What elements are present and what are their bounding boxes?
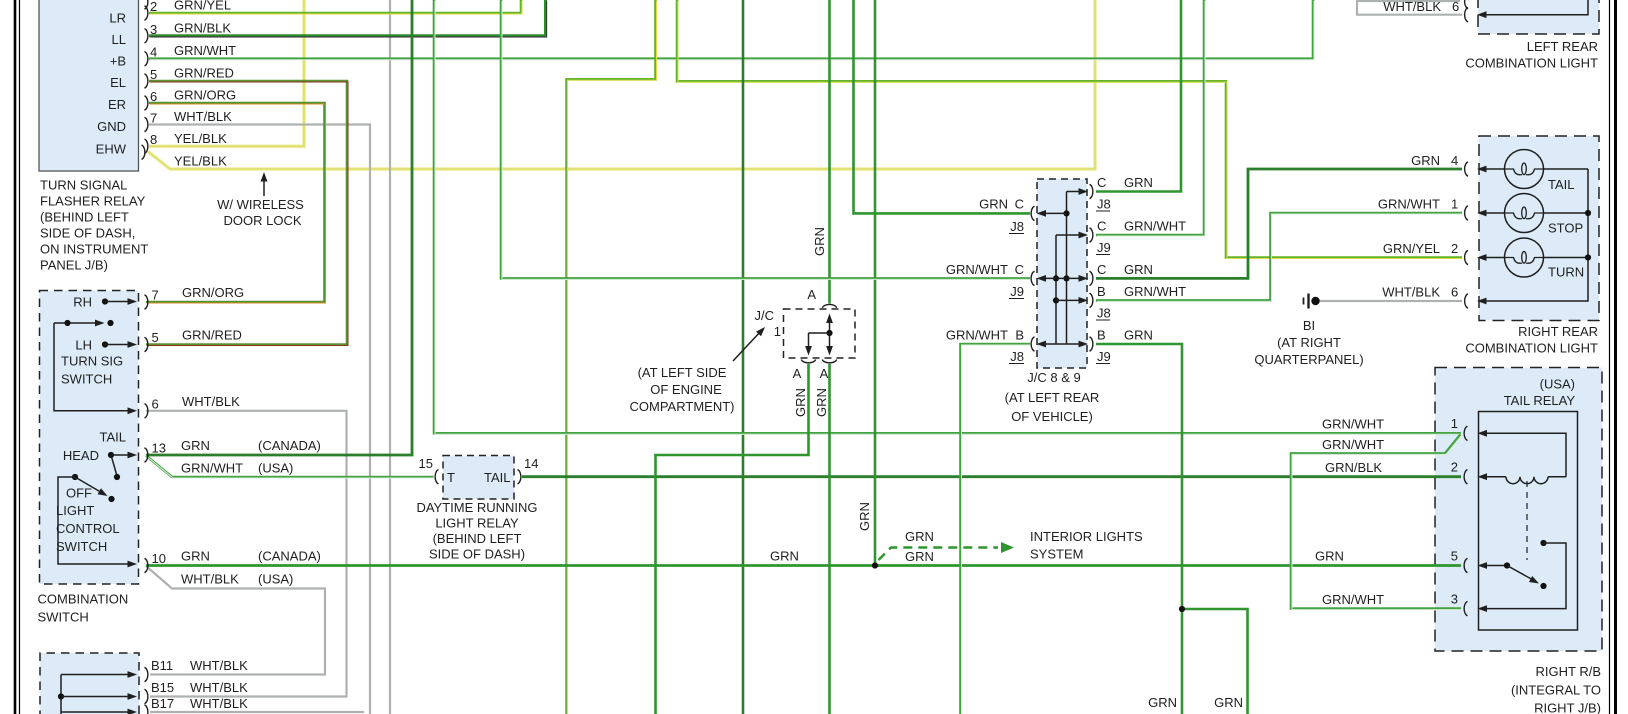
light control switch common to pin 10 (58, 477, 137, 567)
svg-text:GRN/WHT: GRN/WHT (1378, 197, 1440, 212)
flasher relay pin 8 arc (145, 132, 158, 154)
wire GRN/YEL pin 2 (flasher relay) (149, 0, 522, 14)
svg-text:GRN: GRN (181, 549, 210, 564)
turn signal switch wire labels (182, 285, 244, 409)
svg-text:2: 2 (1451, 460, 1458, 475)
svg-text:GRN/RED: GRN/RED (174, 66, 234, 81)
right rear light wire labels (1378, 153, 1440, 300)
flasher relay pin name labels (96, 11, 127, 157)
wire GRN/WHT from J/C 8-9 left pin B J8 down (961, 344, 1032, 714)
svg-text:5: 5 (152, 330, 159, 345)
J/C 8 and 9 dashed box (1037, 179, 1087, 368)
svg-text:GRN/WHT: GRN/WHT (1124, 219, 1186, 234)
daytime running light relay contacts text (447, 470, 511, 485)
flasher relay pin 1 stub arc (145, 0, 148, 9)
svg-text:7: 7 (152, 288, 159, 303)
svg-text:GRN: GRN (1148, 695, 1177, 710)
turn signal switch RH contact (102, 298, 137, 305)
svg-text:GRN/BLK: GRN/BLK (174, 20, 231, 35)
page border left (15, 0, 20, 714)
svg-text:HEAD: HEAD (63, 448, 99, 463)
daytime running light relay pin 14 arc (518, 456, 539, 484)
flasher relay EHW pin arc (142, 145, 145, 159)
pin 13 wire labels (181, 438, 321, 476)
wire GRN pin 10 (CANADA) to tail relay pin 5 (146, 564, 1461, 567)
wire GRN/WHT pin 4 (flasher relay, long top run) (149, 0, 1314, 60)
svg-text:ON INSTRUMENT: ON INSTRUMENT (40, 242, 148, 257)
svg-text:DAYTIME RUNNING: DAYTIME RUNNING (416, 500, 537, 515)
page border right (1610, 0, 1616, 714)
svg-text:GRN/WHT: GRN/WHT (1322, 437, 1384, 452)
right rear light pin numbers (1451, 153, 1458, 300)
bottom GRN labels (1148, 695, 1243, 710)
svg-text:TAIL: TAIL (100, 430, 127, 445)
svg-text:EHW: EHW (96, 142, 127, 157)
svg-text:QUARTERPANEL): QUARTERPANEL) (1254, 352, 1363, 367)
svg-text:GRN: GRN (1124, 175, 1153, 190)
svg-text:C: C (1097, 175, 1106, 190)
wire WHT/BLK vertical trunk x390 (389, 0, 391, 714)
J/C 8-9 caption (1005, 370, 1100, 424)
svg-text:GRN: GRN (770, 549, 799, 564)
daytime running light relay caption (416, 500, 537, 562)
svg-text:(BEHIND LEFT: (BEHIND LEFT (433, 531, 522, 546)
wire WHT/BLK left rear combination light pin 6 (1357, 0, 1462, 15)
wire GRN J/C 1 lower pin A to bottom via x655 (656, 364, 809, 714)
pin 10 wire labels (181, 549, 321, 587)
wire WHT/BLK (USA) light control pin 10 to B11 (146, 566, 325, 675)
light control pin 10 arc (145, 551, 166, 573)
svg-text:C: C (1097, 262, 1106, 277)
svg-text:FLASHER RELAY: FLASHER RELAY (40, 194, 146, 209)
svg-text:SWITCH: SWITCH (56, 539, 107, 554)
lower body connector dashed box (40, 653, 139, 714)
w/ wireless door lock arrow (261, 172, 268, 196)
svg-text:B: B (1097, 328, 1106, 343)
svg-text:OFF: OFF (66, 486, 92, 501)
rotated GRN label x875 (857, 502, 872, 531)
light control switch blade (72, 474, 115, 502)
tail relay pin arcs (1464, 426, 1467, 616)
svg-text:LIGHT: LIGHT (56, 503, 94, 518)
wire YEL/BLK pin 8 (flasher relay to top) (149, 0, 304, 146)
svg-text:SWITCH: SWITCH (61, 372, 112, 387)
BI caption (1254, 318, 1363, 367)
svg-text:GRN: GRN (905, 549, 934, 564)
turn signal switch LH contact (102, 341, 137, 348)
svg-text:INTERIOR LIGHTS: INTERIOR LIGHTS (1030, 529, 1143, 544)
flasher relay wire color labels (174, 0, 236, 169)
wire GRN J/C 1 lower pin A straight down (828, 364, 831, 714)
wire GRN vertical trunk x743 (742, 0, 745, 714)
svg-text:GRN/WHT: GRN/WHT (946, 262, 1008, 277)
flasher relay pin 4 arc (145, 45, 158, 66)
J/C 8-9 row connectors (1037, 188, 1089, 347)
tail bulb (1477, 150, 1588, 189)
svg-text:YEL/BLK: YEL/BLK (174, 154, 227, 169)
svg-text:SWITCH: SWITCH (38, 610, 89, 625)
daytime running light relay dashed box (443, 456, 514, 500)
svg-text:J9: J9 (1097, 349, 1111, 364)
svg-text:5: 5 (1451, 549, 1458, 564)
svg-text:LH: LH (75, 338, 92, 353)
turn signal switch pin 7 arc (145, 288, 159, 310)
svg-text:LEFT REAR: LEFT REAR (1527, 39, 1598, 54)
svg-text:C: C (1015, 197, 1024, 212)
light control pin 13 arc (145, 441, 166, 463)
svg-text:COMBINATION LIGHT: COMBINATION LIGHT (1465, 341, 1598, 356)
svg-text:OF ENGINE: OF ENGINE (650, 382, 722, 397)
wire GRN/RED pin 5 EL to turn signal switch LH (146, 81, 348, 346)
svg-text:ER: ER (108, 97, 126, 112)
svg-text:(BEHIND LEFT: (BEHIND LEFT (40, 210, 129, 225)
turn signal switch common to pin 6 (54, 323, 137, 414)
light control switch lower contact dot (114, 474, 120, 480)
svg-text:TURN SIGNAL: TURN SIGNAL (40, 178, 127, 193)
svg-text:DOOR LOCK: DOOR LOCK (223, 213, 301, 228)
svg-text:GRN: GRN (979, 197, 1008, 212)
flasher relay pin 7 arc (145, 111, 158, 132)
J/C 1 rotated GRN labels (793, 388, 829, 417)
svg-text:GRN: GRN (1315, 549, 1344, 564)
svg-text:J/C: J/C (755, 308, 775, 323)
body connector labels (151, 658, 248, 711)
svg-text:SIDE OF DASH,: SIDE OF DASH, (40, 226, 135, 241)
wire GRN to J/C 8-9 left pin C J8 (854, 0, 1031, 213)
flasher relay pin 2 arc (145, 0, 158, 20)
svg-text:W/ WIRELESS: W/ WIRELESS (217, 197, 304, 212)
svg-text:(AT RIGHT: (AT RIGHT (1277, 335, 1341, 350)
GRN label on main feed (770, 549, 799, 564)
svg-text:J/C 8 & 9: J/C 8 & 9 (1027, 370, 1080, 385)
svg-text:STOP: STOP (1548, 221, 1583, 236)
svg-text:(AT LEFT REAR: (AT LEFT REAR (1005, 390, 1100, 405)
wire GRN/YEL trunk with jog (x655 to x566 down) (567, 0, 657, 714)
svg-text:+B: +B (110, 54, 126, 69)
svg-text:GRN/WHT: GRN/WHT (1124, 284, 1186, 299)
svg-text:COMBINATION LIGHT: COMBINATION LIGHT (1465, 56, 1598, 71)
svg-text:15: 15 (419, 456, 433, 471)
svg-text:CONTROL: CONTROL (56, 521, 120, 536)
tail relay caption top (1504, 377, 1576, 409)
combination switch dashed box (40, 291, 139, 585)
svg-text:GRN: GRN (1411, 153, 1440, 168)
wire GRN/WHT long run to tail relay pin 1 (434, 0, 1462, 434)
light control switch HEAD contact (108, 452, 137, 476)
svg-text:GRN/WHT: GRN/WHT (174, 43, 236, 58)
wire GRN/WHT tail relay pin 3 to pin 1 link (1291, 435, 1462, 610)
svg-text:WHT/BLK: WHT/BLK (181, 572, 239, 587)
rotated GRN label x830 (812, 227, 827, 256)
svg-text:6: 6 (1452, 0, 1459, 14)
svg-text:TURN SIG: TURN SIG (61, 354, 123, 369)
svg-text:GRN/ORG: GRN/ORG (182, 285, 244, 300)
wire GRN vertical to interior lights junction (874, 0, 877, 566)
turn signal switch labels (61, 295, 123, 387)
interior lights system caption (1030, 529, 1143, 562)
svg-text:7: 7 (150, 111, 157, 126)
svg-text:BI: BI (1303, 318, 1315, 333)
wire YEL/BLK EHW (flasher relay, long horizontal) (148, 0, 1095, 169)
svg-text:COMPARTMENT): COMPARTMENT) (630, 399, 735, 414)
svg-text:GRN: GRN (857, 502, 872, 531)
wire WHT/BLK stub above left rear light (1357, 0, 1460, 2)
turn signal switch pin 6 arc (145, 396, 159, 418)
svg-text:10: 10 (152, 551, 166, 566)
svg-text:A: A (793, 366, 802, 381)
J/C 1 internal bus (805, 314, 833, 356)
svg-text:B: B (1015, 328, 1024, 343)
svg-text:RH: RH (73, 295, 92, 310)
J/C 1 dashed box (784, 309, 856, 358)
svg-text:GRN/RED: GRN/RED (182, 328, 242, 343)
body connector internal bus (58, 671, 137, 714)
svg-text:PANEL J/B): PANEL J/B) (40, 258, 108, 273)
svg-text:GRN/BLK: GRN/BLK (1325, 460, 1382, 475)
J/C 1 bottom pin A arcs (801, 360, 836, 363)
tail relay pin numbers (1451, 416, 1458, 607)
svg-text:TAIL: TAIL (1548, 177, 1575, 192)
J/C 1 name and arrow (733, 308, 781, 361)
turn bulb (1477, 238, 1588, 277)
body connector pin B17 arc (145, 705, 148, 714)
svg-text:GRN/WHT: GRN/WHT (181, 461, 243, 476)
body connector pin B11 arc (145, 667, 148, 681)
wire GRN/BLK pin 3 (flasher relay) (149, 0, 547, 37)
svg-text:GRN: GRN (181, 438, 210, 453)
svg-text:14: 14 (524, 456, 538, 471)
svg-text:(USA): (USA) (258, 572, 293, 587)
svg-text:GRN/WHT: GRN/WHT (1322, 592, 1384, 607)
svg-text:GRN: GRN (812, 227, 827, 256)
svg-text:1: 1 (774, 324, 781, 339)
wire GRN/WHT to J/C 8-9 left pin C J9 (501, 0, 1031, 279)
svg-text:1: 1 (1451, 197, 1458, 212)
svg-text:OF VEHICLE): OF VEHICLE) (1011, 409, 1093, 424)
right R/B caption (1511, 664, 1601, 714)
dashed arrow to interior lights system (879, 542, 1015, 560)
wire GRN turn sig pin 13 (CANADA) up (146, 0, 412, 455)
wire GRN from J/C 8-9 right pin B J9 down (1096, 344, 1182, 714)
svg-text:GRN: GRN (814, 388, 829, 417)
tail relay switch (1478, 540, 1567, 612)
svg-text:3: 3 (150, 22, 157, 37)
junction dot GRN branch (1179, 606, 1185, 612)
J/C 8-9 internal bus 1 (1063, 192, 1069, 345)
svg-text:EL: EL (110, 75, 126, 90)
J/C 8-9 left pin labels (946, 197, 1024, 365)
tail relay coil circuit (1478, 430, 1567, 484)
svg-text:B11: B11 (151, 658, 173, 673)
svg-text:GRN: GRN (905, 529, 934, 544)
svg-text:WHT/BLK: WHT/BLK (1383, 0, 1441, 14)
svg-text:SYSTEM: SYSTEM (1030, 547, 1083, 562)
interior lights GRN labels (905, 529, 934, 564)
svg-text:TAIL: TAIL (484, 470, 511, 485)
svg-text:6: 6 (150, 89, 157, 104)
svg-text:A: A (820, 366, 829, 381)
left rear light internal wire (1477, 0, 1588, 18)
turn signal flasher relay J/B connector block (39, 0, 139, 171)
svg-text:1: 1 (1451, 416, 1458, 431)
svg-text:WHT/BLK: WHT/BLK (190, 680, 248, 695)
svg-text:4: 4 (150, 45, 157, 60)
svg-text:B15: B15 (151, 680, 174, 695)
turn signal switch pin 5 arc (145, 330, 159, 352)
tail relay actuator dashed line (1526, 481, 1528, 560)
svg-text:GRN: GRN (1124, 328, 1153, 343)
svg-text:LR: LR (109, 11, 126, 26)
body connector pin B15 arc (145, 689, 148, 703)
svg-text:WHT/BLK: WHT/BLK (190, 658, 248, 673)
flasher relay pin 6 arc (145, 89, 158, 110)
tail relay inner box (1479, 412, 1578, 631)
svg-text:SIDE OF DASH): SIDE OF DASH) (429, 547, 525, 562)
right rear light common bus (1477, 169, 1591, 304)
wire WHT/BLK right rear combination light pin 6 from BI (1319, 300, 1462, 302)
wire GRN from J/C 8-9 right pin C J8 up (1096, 0, 1181, 192)
svg-text:(CANADA): (CANADA) (258, 549, 321, 564)
svg-text:J8: J8 (1097, 306, 1111, 321)
svg-text:LL: LL (112, 32, 126, 47)
svg-text:B: B (1097, 284, 1106, 299)
stop bulb (1477, 194, 1588, 233)
wire WHT/BLK turn-sig pin 6 to B15 (146, 411, 347, 697)
right R/B tail relay dashed box (1435, 368, 1602, 652)
wire GRN to J/C 1 top pin A (828, 0, 831, 304)
combination switch caption (38, 592, 129, 625)
svg-text:GRN/WHT: GRN/WHT (1322, 417, 1384, 432)
svg-text:J9: J9 (1097, 240, 1111, 255)
svg-text:WHT/BLK: WHT/BLK (1382, 285, 1440, 300)
right rear combination light dashed box (1479, 136, 1599, 321)
left rear light pin 6 arc (1465, 0, 1468, 22)
flasher relay pin 5 arc (145, 67, 158, 88)
J/C 1 pin A labels (793, 287, 829, 381)
J/C 1 top pin A arc (822, 304, 836, 307)
left rear combination light caption (1465, 39, 1598, 71)
svg-text:(USA): (USA) (258, 461, 293, 476)
w/ wireless door lock caption (217, 197, 304, 228)
svg-text:B17: B17 (151, 696, 174, 711)
J/C 1 location caption (630, 365, 735, 414)
wire GRN daytime relay pin 14 to tail relay pin 2 (GRN/BLK) (522, 475, 1461, 478)
svg-text:(INTEGRAL TO: (INTEGRAL TO (1511, 683, 1601, 698)
turn signal flasher relay caption (40, 178, 148, 273)
wire GRN from J/C 8-9 right pin C J9 to tail lamp pin 4 (1096, 169, 1462, 278)
svg-text:COMBINATION: COMBINATION (38, 592, 129, 607)
J/C 8-9 internal bus 2 (1053, 235, 1059, 344)
wire GRN/WHT from J/C 8-9 right pin B J8 to stop lamp pin 1 (1096, 213, 1463, 301)
svg-text:RIGHT REAR: RIGHT REAR (1518, 324, 1598, 339)
svg-text:2: 2 (1451, 241, 1458, 256)
svg-text:TURN: TURN (1548, 265, 1584, 280)
svg-text:3: 3 (1451, 592, 1458, 607)
svg-text:13: 13 (152, 441, 166, 456)
svg-text:C: C (1097, 219, 1106, 234)
svg-text:YEL/BLK: YEL/BLK (174, 131, 227, 146)
svg-text:RIGHT J/B): RIGHT J/B) (1534, 701, 1601, 714)
left rear combination light dashed box (1478, 0, 1599, 34)
svg-text:(AT LEFT SIDE: (AT LEFT SIDE (638, 365, 727, 380)
left rear light labels (1383, 0, 1459, 14)
turn signal switch wiper (54, 320, 114, 327)
J/C 8-9 right pin labels (1096, 175, 1186, 364)
svg-text:J8: J8 (1010, 219, 1024, 234)
svg-text:WHT/BLK: WHT/BLK (190, 696, 248, 711)
svg-text:LIGHT RELAY: LIGHT RELAY (435, 516, 519, 531)
right rear combination light caption (1465, 324, 1598, 356)
wire GRN/WHT pin 13 (USA) through daytime running light relay (146, 456, 435, 479)
svg-text:RIGHT R/B: RIGHT R/B (1536, 664, 1602, 679)
svg-text:8: 8 (150, 132, 157, 147)
svg-text:C: C (1015, 262, 1024, 277)
junction dot interior lights tap (872, 562, 878, 568)
flasher relay pin 3 arc (145, 22, 158, 43)
svg-text:(USA): (USA) (1540, 377, 1575, 392)
svg-text:J9: J9 (1010, 284, 1024, 299)
svg-text:J8: J8 (1097, 197, 1111, 212)
svg-text:WHT/BLK: WHT/BLK (174, 109, 232, 124)
wire GRN/YEL to right rear turn lamp pin 2 (677, 0, 1463, 259)
svg-text:GRN: GRN (1214, 695, 1243, 710)
svg-text:A: A (807, 287, 816, 302)
wire WHT/BLK pin 7 GND (flasher relay down to bottom) (149, 125, 370, 714)
svg-text:6: 6 (1451, 285, 1458, 300)
right rear light pin arcs (1465, 162, 1468, 308)
wire GRN branch to bottom right (1182, 609, 1248, 714)
svg-text:GRN: GRN (1124, 262, 1153, 277)
tail relay wire labels (1315, 417, 1384, 608)
BI body ground symbol (1304, 294, 1320, 309)
svg-text:J8: J8 (1010, 349, 1024, 364)
light control switch labels (56, 430, 126, 555)
svg-text:GRN/YEL: GRN/YEL (174, 0, 231, 13)
daytime running light relay pin 15 arc (419, 456, 439, 484)
svg-text:TAIL RELAY: TAIL RELAY (1504, 393, 1576, 408)
J/C 8-9 right pin arcs (1090, 184, 1093, 351)
bulb function labels (1548, 177, 1584, 280)
J/C 8-9 left pin arcs (1031, 206, 1034, 351)
svg-text:WHT/BLK: WHT/BLK (182, 394, 240, 409)
svg-text:5: 5 (150, 67, 157, 82)
svg-text:GRN/ORG: GRN/ORG (174, 88, 236, 103)
svg-text:6: 6 (152, 396, 159, 411)
svg-text:GRN/YEL: GRN/YEL (1383, 241, 1440, 256)
wire GRN/WHT from J/C 8-9 right pin C J9 up (1096, 0, 1205, 236)
svg-text:4: 4 (1451, 153, 1458, 168)
svg-text:GRN: GRN (793, 388, 808, 417)
svg-text:T: T (447, 470, 455, 485)
svg-text:GND: GND (97, 119, 126, 134)
svg-text:GRN/WHT: GRN/WHT (946, 328, 1008, 343)
svg-text:2: 2 (150, 0, 157, 14)
wire GRN/ORG pin 6 ER to turn signal switch RH (146, 103, 326, 303)
wire WHT/BLK B17 (150, 711, 364, 713)
svg-text:(CANADA): (CANADA) (258, 438, 321, 453)
